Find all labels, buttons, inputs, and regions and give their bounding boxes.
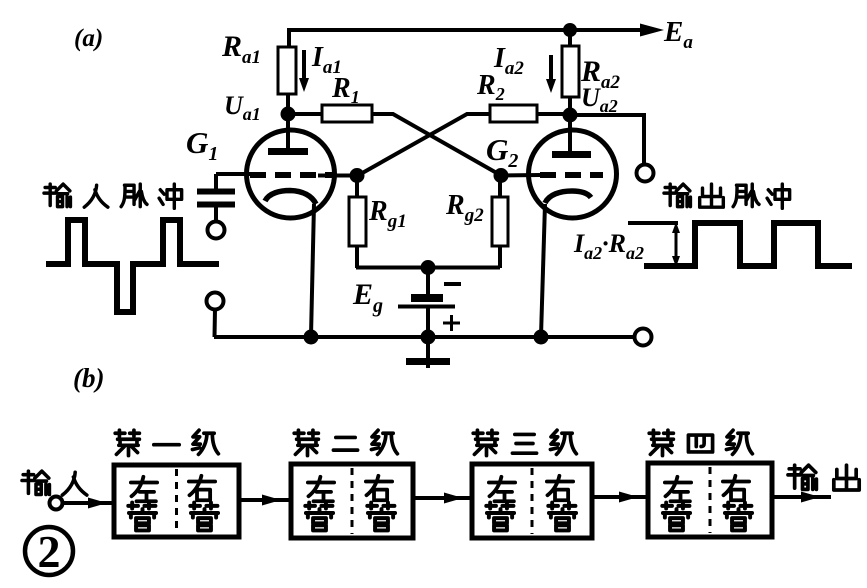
terminal: block diagram input [50,497,63,510]
resistor Ra1 [278,47,296,108]
junction node at battery top [421,260,436,275]
block stage 3 dashed divider [531,468,534,534]
triode G1 envelope [247,130,335,218]
svg-text:2: 2 [38,526,61,577]
triode G1 grid (dashed) with leads [216,174,357,176]
block stage 2 dashed divider [351,468,354,534]
label plus (battery) [443,315,460,331]
battery Eg [398,268,455,338]
circled figure number 2 [25,526,73,577]
wire: R2 to G1 grid (cross-coupling) [357,114,490,176]
wire: node Ua2 to output terminal [570,115,644,164]
triode G2 anode plate and lead [552,121,591,155]
arrow: input to stage 1 [63,498,114,509]
wire: node Ua1 to R1 [288,112,322,116]
terminal: bottom right output [635,329,652,346]
arrow: stage 3 to stage 4 [592,492,648,503]
terminal: input lower [207,293,224,310]
label 右管 (stage 2 right tube) [366,476,395,531]
wire: bottom rail [214,335,634,339]
arrow: stage 4 to output [772,492,831,503]
label 左管 (stage 4 left tube) [662,477,691,531]
terminal: input upper [208,222,225,239]
input pulse waveform [46,220,219,312]
triode G2 grid (dashed) with lead [501,173,603,178]
label 输出脉冲 [664,184,790,208]
wire: G2 cathode to bottom rail [541,204,545,336]
label 输入 (input) [22,471,87,495]
triode G1 anode plate and lead [268,121,308,152]
block stage 2 box [291,464,413,538]
resistor Ra2 [562,30,579,110]
svg-text:(a): (a) [74,25,103,52]
svg-text:(b): (b) [73,363,104,393]
arrow: stage 1 to stage 2 [239,495,291,506]
output pulse waveform [644,223,852,266]
junction node on rail above Ra2 [563,23,577,37]
block stage 3 box [472,464,592,538]
label 输出 (output) [788,465,859,490]
capacitor C (input coupling) [197,174,235,222]
label 右管 (stage 4 right tube) [723,476,752,531]
wire: G1 cathode to bottom rail [311,204,314,336]
resistor Rg2 [492,182,508,268]
label 第2级 (stage 2) [294,430,397,455]
label 右管 (stage 3 right tube) [547,476,576,531]
resistor R1 [322,105,372,122]
terminal: output upper [637,165,654,182]
block stage 4 dashed divider [709,467,712,533]
block stage 1 dashed divider [175,469,178,533]
wire: Rg1/Rg2 bottom bus [356,266,500,270]
node: G1 grid / R2 / Rg1 junction [350,168,365,183]
ground [406,338,450,368]
wire: lower input terminal to bottom rail [213,309,218,337]
arrowhead of Ea rail [640,24,664,37]
block stage 1 box [114,465,239,537]
node Ua2 [563,108,578,123]
junction: G2 cathode at rail [534,330,549,345]
wire: R2 to node Ua2 [537,112,570,116]
label 左管 (stage 2 left tube) [305,477,334,531]
label 右管 (stage 1 right tube) [189,476,218,531]
current arrow Ia2 [546,55,556,93]
triode G2 envelope [529,130,617,218]
label 输入脉冲 [44,184,182,208]
measure double arrow Ia2*Ra2 [672,222,680,267]
label 第4级 (stage 4) [649,430,752,455]
current arrow Ia1 [299,50,309,92]
wire: R1 to G2 grid (cross-coupling) [372,114,502,176]
label 左管 (stage 3 left tube) [486,477,515,531]
label minus (battery) [444,282,461,286]
junction: battery/ground at rail [421,330,436,345]
resistor Rg1 [349,182,366,268]
label 左管 (stage 1 left tube) [128,477,157,531]
label 第3级 (stage 3) [473,430,576,455]
triode G1 cathode arc [265,191,316,205]
junction: G1 cathode at rail [304,330,319,345]
wire: Ea supply rail [289,30,642,48]
triode G2 cathode arc [545,191,591,203]
node: G2 grid / R1 / Rg2 junction [494,168,509,183]
block stage 4 box [648,463,772,537]
arrow: stage 2 to stage 3 [413,493,472,504]
resistor R2 [490,105,537,122]
measure reference line (output amplitude) [628,221,678,225]
label 第1级 (stage 1) [115,430,218,455]
node Ua1 (G1 anode node) [281,107,296,122]
